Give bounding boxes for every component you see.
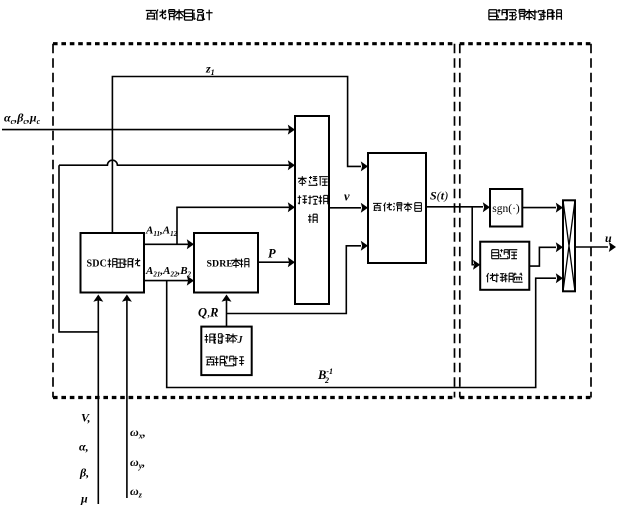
wire: adaptive gain output to multiplier	[529, 247, 556, 266]
wire: u output	[575, 246, 608, 248]
svg-text:S(t): S(t)	[430, 189, 448, 203]
title: zi shi ying hua mo kong zhi lv (adaptive sliding mode control law)	[489, 9, 562, 20]
svg-text:ωx,: ωx,	[130, 425, 146, 441]
svg-text:V,: V,	[81, 411, 90, 425]
wire: A11,A12 branch to virtual control	[177, 207, 289, 244]
svg-text:A21,A22,B2: A21,A22,B2	[145, 265, 192, 279]
left dashed frame: optimal sliding surface design	[53, 44, 455, 398]
wire: A21,A22,B2 from SDC to SDRE	[144, 280, 188, 282]
svg-text:β,: β,	[79, 466, 89, 480]
wire: Q,R from performance index box to SDRE	[226, 300, 228, 327]
block: performance index J parameter selection	[201, 327, 251, 376]
right dashed frame: adaptive sliding mode control law	[460, 44, 591, 398]
svg-text:ν: ν	[344, 190, 350, 204]
svg-text:SDC: SDC	[87, 259, 108, 270]
block: sgn function	[490, 189, 522, 227]
svg-text:Q,R: Q,R	[198, 306, 219, 320]
wire: S(t) branch to adaptive switching gain	[472, 207, 474, 265]
wire: P from SDRE to virtual control	[258, 261, 289, 263]
block: adaptive switching gain	[480, 242, 529, 290]
svg-text:J: J	[237, 335, 244, 346]
svg-text:u: u	[605, 231, 612, 245]
wire: sgn output to multiplier	[522, 207, 556, 209]
wire: B2 inverse path to multiplier	[167, 278, 556, 387]
wire: Q,R branch to optimal sliding surface	[227, 246, 362, 314]
svg-text:B-12: B-12	[317, 367, 333, 385]
block: multiplier (X)	[563, 200, 575, 291]
wire: S(t) from optimal sliding surface to sgn	[426, 206, 483, 208]
svg-text:αc,βc,μc: αc,βc,μc	[4, 111, 41, 127]
svg-text:ωy,: ωy,	[130, 455, 145, 471]
block: SDRE solver	[194, 233, 258, 293]
wire: nu from virtual control to optimal sliding surface	[329, 207, 361, 209]
wire: omega x y z input	[126, 300, 128, 498]
wire: A11,A12 from SDC to SDRE	[144, 243, 188, 245]
svg-text:μ: μ	[80, 492, 88, 506]
block: SDC form transformation	[81, 233, 145, 293]
svg-text:z1: z1	[205, 62, 215, 78]
wire: z1 from SDC top to optimal sliding surface	[112, 77, 361, 234]
title: zui you hua mo mian she ji (optimal sliding surface design)	[146, 9, 213, 20]
wire: alpha_c beta_c mu_c command input	[2, 129, 290, 131]
block: construct virtual control law	[295, 116, 329, 304]
svg-text:P: P	[268, 247, 276, 261]
svg-text:SDRE: SDRE	[207, 259, 234, 270]
svg-text:sgn(·): sgn(·)	[492, 203, 520, 215]
svg-text:A11,A12: A11,A12	[145, 225, 178, 239]
svg-text:α,: α,	[79, 440, 89, 454]
block: optimal sliding surface	[368, 153, 426, 263]
wire: state feedback to virtual control (with hop over z1 line)	[59, 160, 289, 165]
svg-text:ωz: ωz	[130, 484, 143, 500]
wire: V alpha beta mu input	[97, 300, 99, 504]
